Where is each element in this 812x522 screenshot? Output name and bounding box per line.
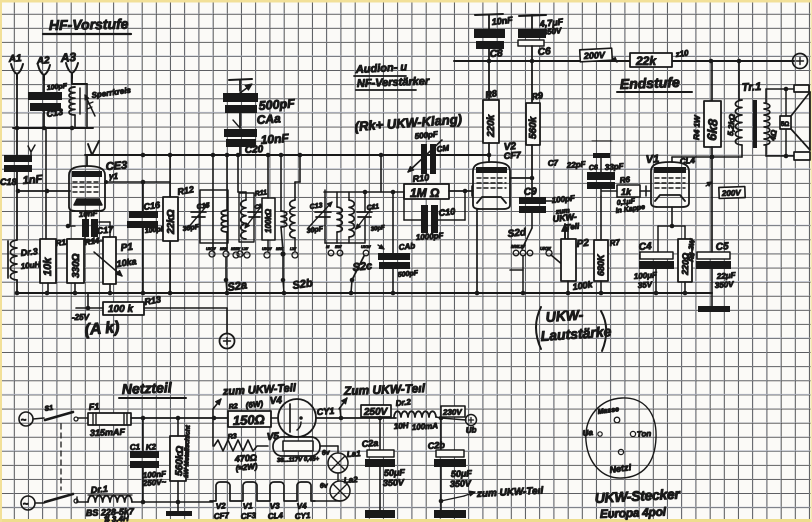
svg-text:~: ~ [23, 499, 28, 509]
svg-text:350V: 350V [715, 280, 735, 290]
svg-text:CF7: CF7 [503, 150, 522, 161]
svg-text:1nF: 1nF [22, 173, 43, 187]
svg-text:Dr.3: Dr.3 [20, 246, 38, 258]
svg-text:CAa: CAa [256, 111, 281, 127]
svg-text:CM: CM [436, 143, 450, 154]
svg-text:C1: C1 [130, 442, 141, 452]
svg-text:10nF: 10nF [260, 131, 290, 147]
svg-text:560k: 560k [528, 116, 539, 139]
svg-text:A3: A3 [59, 50, 77, 65]
svg-text:100kΩ: 100kΩ [264, 208, 273, 233]
svg-text:La1: La1 [347, 449, 362, 459]
svg-text:V4: V4 [297, 501, 308, 511]
svg-text:V1: V1 [645, 153, 659, 166]
svg-text:C2a: C2a [361, 438, 378, 449]
svg-text:CF7: CF7 [214, 511, 230, 521]
svg-text:10H: 10H [394, 421, 409, 431]
svg-text:100μF: 100μF [634, 270, 659, 281]
svg-text:NF-Verstärker: NF-Verstärker [357, 75, 430, 90]
svg-text:UKW: UKW [540, 246, 551, 251]
svg-text:680K: 680K [596, 253, 606, 276]
svg-text:HF-Vorstufe: HF-Vorstufe [49, 16, 129, 33]
svg-text:CY1: CY1 [316, 406, 334, 417]
svg-text:Ub: Ub [466, 425, 477, 435]
svg-text:MW: MW [276, 246, 284, 251]
svg-text:R6: R6 [619, 175, 631, 185]
svg-text:CE3: CE3 [105, 160, 127, 173]
svg-text:S2d: S2d [507, 227, 527, 240]
svg-text:500pF: 500pF [258, 96, 295, 113]
svg-text:-25V: -25V [72, 313, 90, 322]
svg-text:R2: R2 [228, 403, 238, 411]
svg-text:C9: C9 [524, 186, 538, 198]
svg-text:F1: F1 [88, 401, 99, 412]
svg-text:10k: 10k [42, 257, 54, 276]
svg-text:200V: 200V [583, 50, 607, 61]
svg-text:S1: S1 [44, 405, 54, 413]
svg-text:S2c: S2c [352, 260, 373, 274]
svg-text:315mAF: 315mAF [90, 427, 126, 438]
svg-text:C17: C17 [96, 224, 114, 236]
svg-text:K2: K2 [146, 442, 157, 452]
svg-text:UKW: UKW [262, 246, 273, 251]
svg-text:Tr.1: Tr.1 [742, 81, 762, 94]
svg-text:350V: 350V [383, 477, 405, 488]
svg-text:V2: V2 [216, 501, 227, 511]
svg-text:C20: C20 [245, 144, 264, 156]
svg-text:R7: R7 [609, 238, 621, 248]
svg-text:22pF: 22pF [566, 160, 587, 170]
svg-text:CL4: CL4 [268, 511, 284, 521]
svg-text:⇅ 3,4H: ⇅ 3,4H [103, 514, 129, 522]
svg-text:V5: V5 [266, 431, 279, 443]
svg-text:Dr.1: Dr.1 [90, 484, 108, 495]
svg-text:R3: R3 [227, 433, 237, 441]
svg-text:Zum UKW-Teıl: Zum UKW-Teıl [343, 381, 426, 398]
svg-text:A1: A1 [7, 53, 22, 65]
svg-text:UKW: UKW [206, 246, 217, 251]
svg-text:V1: V1 [243, 501, 254, 511]
svg-text:R4 1W: R4 1W [692, 114, 702, 140]
svg-text:LW: LW [518, 244, 526, 249]
svg-text:250V: 250V [363, 407, 389, 418]
svg-text:CAb: CAb [398, 241, 415, 252]
svg-text:V3: V3 [270, 501, 281, 511]
svg-text:C8: C8 [489, 48, 503, 60]
svg-text:P1: P1 [120, 242, 134, 254]
svg-text:35V: 35V [638, 280, 653, 290]
svg-text:1M Ω: 1M Ω [410, 186, 440, 200]
svg-text:C5: C5 [715, 241, 729, 253]
svg-text:5Ω: 5Ω [781, 122, 789, 128]
svg-text:33pF: 33pF [605, 162, 625, 172]
svg-text:V4: V4 [269, 395, 282, 407]
svg-text:R10: R10 [412, 172, 429, 184]
svg-text:CF3: CF3 [241, 511, 257, 521]
svg-text:6k8: 6k8 [704, 118, 721, 141]
svg-text:1k: 1k [621, 187, 632, 197]
svg-text:CL4: CL4 [680, 156, 696, 166]
svg-text:330Ω: 330Ω [71, 253, 82, 278]
svg-text:C10: C10 [438, 206, 455, 218]
svg-text:100mA: 100mA [412, 421, 439, 432]
svg-text:~: ~ [21, 415, 26, 425]
svg-text:P2: P2 [576, 238, 590, 250]
svg-text:22k: 22k [635, 54, 657, 68]
svg-text:R9: R9 [531, 90, 544, 102]
svg-text:220k: 220k [486, 114, 497, 138]
svg-text:10nF: 10nF [79, 209, 99, 219]
svg-text:C4: C4 [638, 241, 652, 253]
svg-text:La2: La2 [344, 475, 359, 485]
svg-text:250V~: 250V~ [142, 477, 167, 488]
svg-text:Ton: Ton [637, 429, 652, 439]
svg-text:γ1: γ1 [109, 172, 118, 181]
svg-text:MW: MW [220, 246, 228, 251]
svg-text:(6W): (6W) [245, 399, 264, 410]
svg-text:C7: C7 [548, 158, 559, 168]
svg-text:200V: 200V [721, 188, 742, 198]
svg-text:(A k): (A k) [84, 319, 120, 339]
svg-text:350V: 350V [450, 478, 472, 489]
svg-text:C6: C6 [537, 46, 551, 58]
svg-text:Netzteil: Netzteil [122, 379, 173, 397]
svg-text:150Ω: 150Ω [233, 412, 265, 428]
svg-text:Dr.2: Dr.2 [395, 397, 412, 408]
svg-text:C6: C6 [589, 164, 599, 172]
svg-text:MW: MW [231, 246, 239, 251]
svg-text:Eυropa 4pol: Eυropa 4pol [600, 505, 667, 521]
svg-text:UKW: UKW [361, 244, 372, 249]
svg-text:Endstufe: Endstufe [620, 74, 681, 92]
svg-text:100 k: 100 k [108, 304, 133, 315]
svg-text:22kΩ: 22kΩ [166, 209, 177, 235]
svg-text:C18: C18 [0, 177, 17, 187]
svg-text:230V: 230V [442, 408, 463, 417]
svg-text:CY1: CY1 [295, 511, 312, 521]
svg-text:Ua: Ua [582, 428, 594, 438]
svg-text:UKW-: UKW- [545, 306, 584, 325]
svg-text:R8: R8 [485, 88, 498, 100]
